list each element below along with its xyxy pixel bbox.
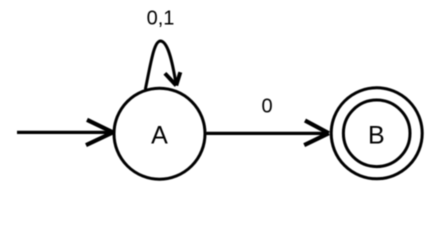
- svg-text:0,1: 0,1: [147, 7, 175, 29]
- svg-text:A: A: [151, 122, 168, 150]
- svg-text:B: B: [368, 122, 385, 150]
- svg-text:0: 0: [261, 96, 272, 118]
